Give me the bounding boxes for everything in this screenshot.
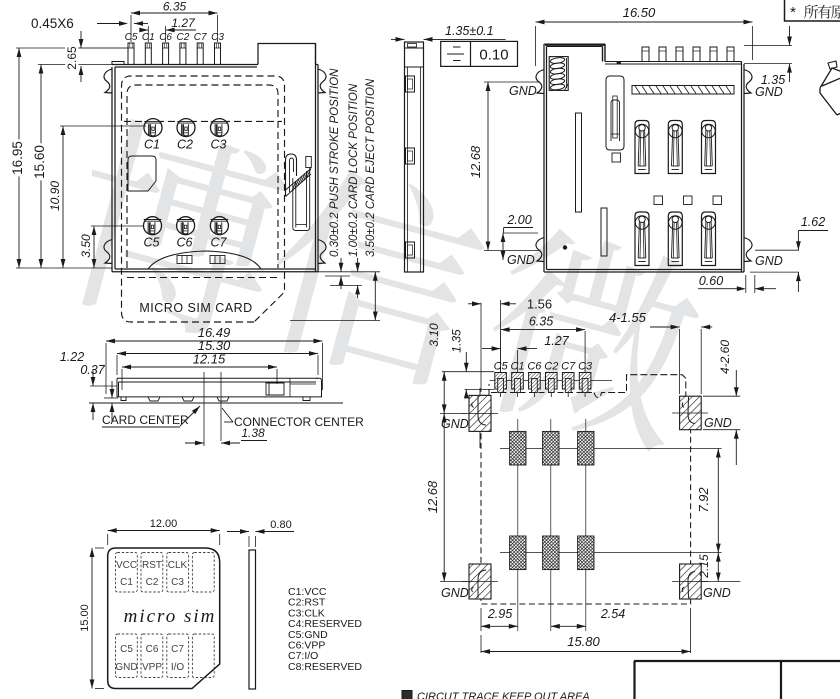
svg-text:C7: C7 — [211, 236, 228, 250]
svg-text:0.80: 0.80 — [270, 519, 291, 531]
svg-text:12.68: 12.68 — [425, 480, 440, 513]
svg-text:GND: GND — [755, 254, 783, 268]
dimension 0.45X6 — [31, 16, 148, 31]
bottom view: contact slots — [635, 121, 716, 174]
note box top right — [785, 0, 840, 21]
dimension 2.00 — [501, 213, 538, 260]
bottom view: body outline — [544, 44, 744, 272]
svg-text:2.95: 2.95 — [487, 607, 512, 621]
svg-text:VCC: VCC — [116, 560, 137, 571]
bottom view: left slide bar — [576, 113, 582, 212]
pcb: GND pad detail lines — [462, 388, 708, 598]
pcb: row center lines — [500, 448, 722, 450]
pcb: GND pad top-left — [469, 395, 491, 431]
bottom view: GND tab bottom-left — [536, 238, 544, 262]
bottom view: pins — [642, 47, 734, 62]
top view: left mounting tabs — [104, 69, 112, 93]
svg-text:C1: C1 — [120, 577, 133, 588]
dimension 10.90 — [48, 126, 146, 268]
top view: connector body outline — [112, 44, 318, 272]
svg-text:GND: GND — [507, 253, 535, 267]
svg-text:C6: C6 — [527, 361, 542, 373]
pcb: pin pad labels — [494, 361, 593, 373]
dimension 1.35 right — [744, 26, 792, 87]
sim card: outline — [108, 548, 220, 689]
bottom view: GND tab top-left — [536, 70, 544, 94]
svg-text:C2: C2 — [177, 32, 190, 43]
top view: dashed contact row line — [124, 120, 282, 122]
svg-text:CARD CENTER: CARD CENTER — [102, 413, 189, 427]
pcb: signal pads row2 — [510, 536, 594, 570]
svg-text:MICRO SIM CARD: MICRO SIM CARD — [139, 301, 252, 315]
3d sketch fragment — [820, 61, 840, 115]
svg-text:GND: GND — [704, 416, 732, 430]
pcb dimension 2.15 — [697, 553, 740, 582]
svg-text:1.38: 1.38 — [241, 426, 265, 440]
svg-text:0.45X6: 0.45X6 — [31, 16, 74, 31]
svg-text:16.50: 16.50 — [623, 5, 656, 20]
top view: card detect window — [128, 156, 156, 191]
pcb dimension 2.95 — [481, 607, 518, 631]
pcb: GND pad top-right — [680, 396, 702, 430]
pcb dimension 7.92 — [696, 449, 721, 553]
bottom view: GND tab bottom-right — [744, 238, 752, 262]
dimension 15.60 — [32, 65, 112, 269]
pcb dimension 1.35 — [450, 329, 495, 398]
svg-text:15.60: 15.60 — [32, 145, 47, 179]
svg-text:C1: C1 — [144, 138, 160, 152]
sim card: contact pads bottom row — [116, 634, 215, 678]
pcb dimension 3.10 — [427, 323, 494, 413]
svg-text:CIRCUT TRACE KEEP OUT AREA: CIRCUT TRACE KEEP OUT AREA — [417, 691, 590, 699]
title block fragment — [634, 661, 840, 699]
bottom view: coil spring — [549, 57, 568, 91]
svg-text:GND: GND — [115, 662, 137, 673]
svg-text:C3: C3 — [171, 577, 184, 588]
svg-text:2.00: 2.00 — [506, 213, 531, 227]
svg-text:15.00: 15.00 — [79, 604, 91, 632]
top view: card stop arc — [148, 251, 261, 269]
svg-text:C2: C2 — [146, 577, 159, 588]
svg-text:C7: C7 — [171, 644, 184, 655]
svg-text:6.35: 6.35 — [163, 0, 187, 14]
svg-text:10.90: 10.90 — [48, 181, 62, 211]
bottom view: mid windows — [654, 196, 663, 205]
top view: eject lever and spring — [286, 154, 312, 231]
watermark character wei — [472, 218, 711, 455]
dimension 1.35±0.1 — [391, 24, 506, 42]
svg-text:6.35: 6.35 — [529, 315, 553, 329]
pcb dimension 4-2.60 — [703, 340, 740, 465]
position note 3.50 card eject — [365, 78, 378, 320]
dimension 0.37 — [80, 363, 118, 421]
dimension 1.27 top — [139, 16, 196, 42]
svg-text:16.95: 16.95 — [10, 141, 25, 175]
svg-text:2.65: 2.65 — [65, 46, 79, 70]
dimension 2.65 — [65, 31, 128, 82]
svg-text:C3: C3 — [211, 138, 227, 152]
pcb: signal pads row1 — [510, 431, 594, 465]
svg-text:1.27: 1.27 — [171, 16, 196, 30]
pcb dimension 15.80 — [481, 608, 691, 654]
dimension 6.35 top — [131, 0, 218, 42]
svg-text:2.15: 2.15 — [697, 554, 711, 579]
pcb: GND pad bottom-right — [680, 564, 702, 599]
top view: pin labels — [125, 32, 225, 43]
bottom view: GND tab top-right — [744, 70, 752, 94]
svg-text:1.62: 1.62 — [801, 215, 825, 229]
svg-text:12.15: 12.15 — [193, 352, 226, 367]
top view: pads on arc — [177, 256, 192, 264]
svg-text:C8:RESERVED: C8:RESERVED — [288, 661, 362, 673]
svg-text:C3: C3 — [578, 361, 593, 373]
pcb: column center lines — [517, 419, 519, 631]
svg-text:GND: GND — [441, 586, 469, 600]
top view: right mounting tabs — [318, 69, 326, 93]
svg-text:*: * — [790, 4, 796, 21]
svg-text:4-2.60: 4-2.60 — [718, 340, 732, 374]
svg-text:1.27: 1.27 — [544, 334, 569, 348]
pcb: dashed outline — [481, 375, 691, 604]
top view: dashed card lock line — [127, 277, 278, 279]
svg-text:CLK: CLK — [168, 560, 188, 571]
dimension 16.49 — [106, 325, 323, 394]
watermark character bo — [58, 112, 296, 349]
dimension 0.60 — [698, 274, 776, 293]
front view: body — [89, 378, 343, 403]
svg-text:C6: C6 — [177, 236, 193, 250]
sim card: contact legend — [288, 586, 362, 673]
top view: dashed SIM card outline — [122, 76, 285, 322]
svg-text:3.50: 3.50 — [79, 234, 93, 258]
svg-text:RST: RST — [142, 560, 162, 571]
top view: inner dashed outline — [127, 85, 278, 268]
bottom view: center guide — [606, 76, 624, 150]
dimension 1.22 — [60, 350, 117, 420]
label CARD CENTER — [102, 406, 200, 427]
svg-text:0.30±0.2 PUSH STROKE POSITION: 0.30±0.2 PUSH STROKE POSITION — [329, 68, 341, 257]
svg-text:GND: GND — [703, 586, 731, 600]
svg-text:3.10: 3.10 — [427, 323, 441, 347]
svg-text:12.68: 12.68 — [468, 145, 483, 178]
svg-text:I/O: I/O — [171, 662, 185, 673]
svg-text:15.80: 15.80 — [567, 634, 600, 649]
pcb: pin pads — [490, 380, 612, 382]
svg-text:4-1.55: 4-1.55 — [609, 310, 647, 325]
keep out area legend — [402, 691, 590, 699]
top view: contacts row2 — [144, 217, 229, 235]
top view: SIM contacts — [144, 119, 229, 137]
svg-text:C7: C7 — [194, 32, 207, 43]
svg-text:1.35: 1.35 — [761, 73, 785, 87]
svg-text:0.37: 0.37 — [80, 363, 105, 377]
svg-text:C5: C5 — [494, 361, 509, 373]
top view: labels C1 C2 C3 — [144, 138, 227, 152]
top view: labels C5 C6 C7 — [144, 236, 228, 250]
svg-text:GND: GND — [509, 84, 537, 98]
svg-text:C2: C2 — [544, 361, 558, 373]
pcb dimension 12.68 — [425, 413, 467, 581]
bottom view: lower slide bar — [601, 208, 607, 256]
sim card: pad texts top — [116, 560, 188, 588]
dimension 1.38 — [185, 426, 267, 445]
pcb dimension 2.54 — [551, 607, 625, 629]
top view: connector pins — [128, 43, 221, 65]
dimension 16.95 — [10, 48, 128, 268]
svg-text:C2: C2 — [177, 138, 193, 152]
dimension 15.30 — [117, 338, 318, 375]
svg-text:0.60: 0.60 — [699, 274, 723, 288]
svg-text:7.92: 7.92 — [696, 487, 711, 513]
pcb dimension 1.27 — [482, 334, 570, 372]
extension lines right of top view — [290, 272, 380, 321]
svg-text:micro sim: micro sim — [124, 606, 217, 627]
svg-text:VPP: VPP — [142, 662, 162, 673]
pcb dimension 1.56 — [468, 297, 552, 393]
svg-text:1.00±0.2 CARD LOCK POSITION: 1.00±0.2 CARD LOCK POSITION — [348, 83, 360, 257]
svg-text:C5: C5 — [120, 644, 133, 655]
svg-text:C7: C7 — [561, 361, 576, 373]
pcb dimension 4-1.55 — [609, 310, 712, 394]
bottom view: hatched strip — [632, 86, 734, 95]
label CONNECTOR CENTER — [222, 408, 364, 429]
side view: body — [405, 42, 424, 272]
bottom view: small window — [612, 153, 621, 162]
sim card: pad texts bottom — [115, 644, 184, 673]
svg-text:2.54: 2.54 — [600, 607, 625, 621]
svg-text:3.50±0.2 CARD EJECT POSITION: 3.50±0.2 CARD EJECT POSITION — [365, 78, 377, 257]
dimension 1.62 — [750, 215, 828, 292]
sim card: contact pads top row — [116, 553, 215, 593]
side view: board lock tabs — [406, 76, 415, 92]
svg-text:1.22: 1.22 — [60, 350, 84, 364]
position note 0.30 push stroke — [329, 68, 343, 289]
dimension 15.00 — [79, 548, 104, 689]
tolerance feature box 0.10 — [441, 41, 518, 66]
watermark character xin — [255, 156, 496, 395]
pcb dimension 6.35 — [501, 315, 585, 373]
dimension 12.00 — [108, 518, 220, 545]
dimension 12.68 bottom view — [468, 82, 540, 251]
svg-text:C6: C6 — [146, 644, 159, 655]
pcb: GND pad bottom-left — [469, 564, 491, 599]
sim card: side slice — [249, 550, 256, 689]
position note 1.00 card lock — [348, 83, 360, 298]
svg-text:1.35±0.1: 1.35±0.1 — [445, 24, 494, 38]
front view: center lines — [203, 372, 205, 446]
svg-text:12.00: 12.00 — [150, 518, 178, 530]
svg-text:0.10: 0.10 — [479, 47, 508, 64]
svg-text:1.35: 1.35 — [450, 329, 464, 353]
svg-text:GND: GND — [755, 85, 783, 99]
dimension 3.50 — [79, 226, 144, 268]
dimension 16.50 — [536, 5, 753, 66]
bottom view: fixing dot — [563, 245, 567, 249]
svg-text:1.56: 1.56 — [527, 297, 552, 312]
dimension 12.15 — [122, 352, 277, 391]
dimension 0.80 — [227, 519, 294, 547]
svg-text:C5: C5 — [144, 236, 160, 250]
